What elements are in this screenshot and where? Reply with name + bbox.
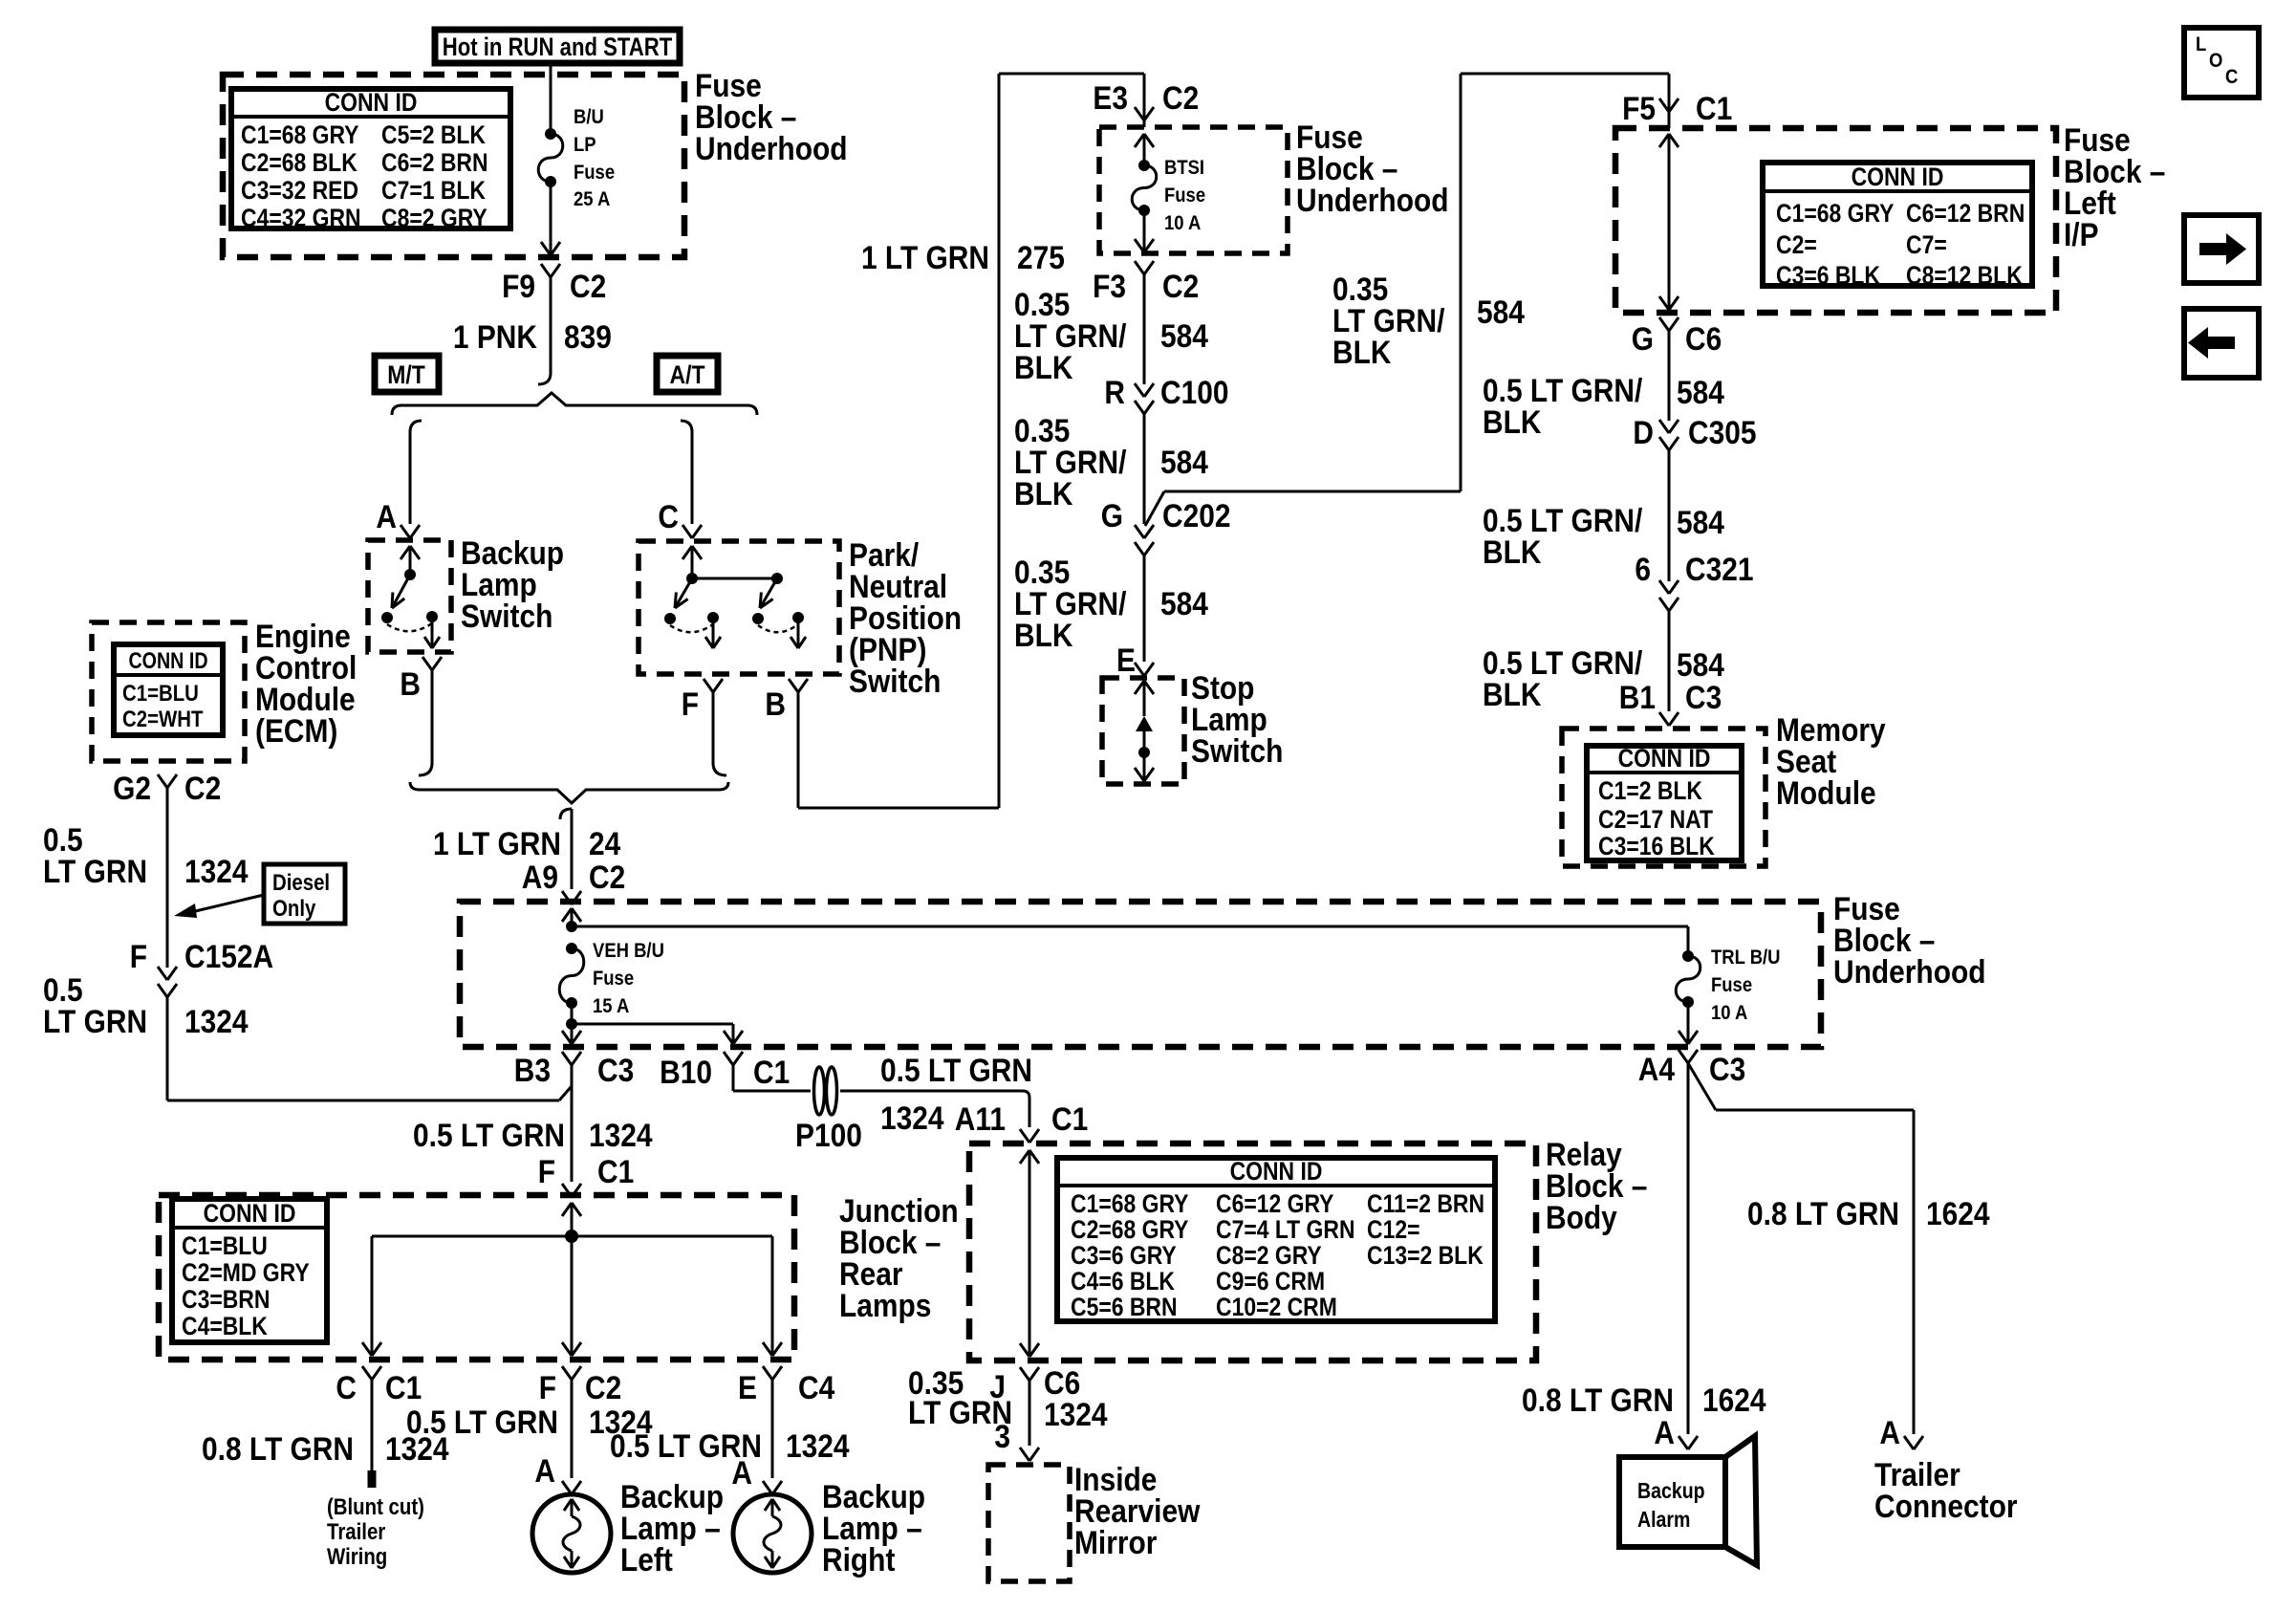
svg-text:C2: C2 bbox=[1162, 268, 1199, 304]
label: Backup Lamp - Left bbox=[620, 1478, 724, 1578]
svg-text:Body: Body bbox=[1546, 1199, 1617, 1235]
svg-text:Connector: Connector bbox=[1874, 1488, 2018, 1524]
svg-text:10 A: 10 A bbox=[1711, 1002, 1747, 1024]
svg-text:0.8 LT GRN: 0.8 LT GRN bbox=[1522, 1382, 1674, 1418]
svg-text:6: 6 bbox=[1635, 551, 1651, 587]
svg-text:1624: 1624 bbox=[1702, 1382, 1766, 1418]
label: Fuse Block - Underhood (center) bbox=[1833, 890, 1986, 990]
svg-text:C1: C1 bbox=[753, 1054, 790, 1090]
label: Relay Block - Body bbox=[1546, 1136, 1647, 1235]
svg-text:C4=32 GRN: C4=32 GRN bbox=[241, 204, 361, 232]
wire: 0.5 LT GRN/BLK 584 (C305 to C321) bbox=[1483, 449, 1724, 581]
svg-text:E3: E3 bbox=[1093, 79, 1128, 116]
svg-text:CONN ID: CONN ID bbox=[204, 1199, 296, 1228]
svg-text:Fuse: Fuse bbox=[1711, 974, 1752, 996]
svg-text:BLK: BLK bbox=[1483, 676, 1541, 712]
svg-text:1 LT GRN: 1 LT GRN bbox=[861, 239, 989, 275]
fuse B/U LP 25 A bbox=[538, 106, 615, 255]
svg-text:F5: F5 bbox=[1622, 90, 1656, 126]
svg-text:A4: A4 bbox=[1638, 1051, 1675, 1087]
branch brace for M/T and A/T split bbox=[392, 393, 757, 415]
connector J C6 bbox=[908, 1364, 1108, 1432]
connector R C100 bbox=[1104, 374, 1228, 414]
connector B (PNP pin B) bbox=[765, 679, 808, 722]
backup lamp - left bulb bbox=[532, 1494, 611, 1573]
svg-text:C305: C305 bbox=[1688, 414, 1757, 450]
connector B3 C3 bbox=[514, 1052, 634, 1088]
svg-text:C2=68 BLK: C2=68 BLK bbox=[241, 148, 357, 177]
svg-text:C: C bbox=[336, 1369, 357, 1405]
svg-text:C3: C3 bbox=[597, 1052, 634, 1088]
svg-text:G2: G2 bbox=[113, 770, 151, 806]
wire through relay block bbox=[1020, 1150, 1039, 1357]
svg-text:Underhood: Underhood bbox=[1296, 182, 1449, 218]
backup lamp switch dashed box bbox=[368, 540, 451, 652]
svg-text:839: 839 bbox=[564, 318, 612, 355]
svg-text:C2=WHT: C2=WHT bbox=[122, 706, 204, 731]
wire: branch to trailer connector (0.8 LT GRN 1624) bbox=[1688, 1063, 1990, 1434]
wire: A4 to backup alarm (0.8 LT GRN 1624) bbox=[1522, 1063, 1766, 1434]
svg-text:CONN ID: CONN ID bbox=[325, 88, 418, 117]
svg-text:B: B bbox=[765, 686, 786, 722]
svg-text:C9=6 CRM: C9=6 CRM bbox=[1216, 1267, 1325, 1295]
svg-text:(ECM): (ECM) bbox=[255, 712, 337, 749]
svg-text:B: B bbox=[400, 665, 421, 702]
label: Park/Neutral Position (PNP) Switch bbox=[849, 536, 962, 699]
fuse block - underhood (center) dashed box bbox=[460, 902, 1821, 1047]
PNP switch contacts bbox=[664, 546, 806, 648]
CONN ID table (fuse block left I/P) bbox=[1763, 163, 2032, 290]
label: Junction Block - Rear Lamps bbox=[839, 1192, 959, 1323]
svg-text:Switch: Switch bbox=[461, 598, 552, 634]
connector C C1 bbox=[336, 1366, 422, 1405]
svg-text:C7=: C7= bbox=[1906, 230, 1947, 259]
svg-text:C2: C2 bbox=[570, 268, 606, 304]
svg-text:LP: LP bbox=[574, 134, 596, 156]
svg-text:C7=1 BLK: C7=1 BLK bbox=[381, 176, 486, 205]
svg-text:1324: 1324 bbox=[589, 1117, 653, 1153]
fuse BTSI 10 A bbox=[1132, 134, 1205, 252]
wire: 0.35 LT GRN/BLK 584 (C100 to C202) bbox=[1014, 412, 1208, 524]
svg-text:C4=6 BLK: C4=6 BLK bbox=[1071, 1267, 1175, 1295]
wire: feed from Hot in RUN into fuse block bbox=[550, 63, 552, 134]
svg-text:C12=: C12= bbox=[1367, 1215, 1419, 1244]
backup alarm box bbox=[1619, 1457, 1725, 1547]
svg-text:1324: 1324 bbox=[786, 1427, 850, 1464]
svg-text:C6: C6 bbox=[1685, 320, 1722, 357]
wire: 1 LT GRN 24 to A9 bbox=[433, 809, 621, 889]
fuse VEH B/U 15 A bbox=[559, 940, 664, 1044]
svg-text:B3: B3 bbox=[514, 1052, 551, 1088]
svg-text:CONN ID: CONN ID bbox=[1852, 163, 1944, 191]
svg-text:C152A: C152A bbox=[184, 938, 273, 974]
wire: A/T branch down to PNP switch bbox=[681, 421, 692, 524]
svg-text:C4: C4 bbox=[798, 1369, 834, 1405]
connector G C202 bbox=[1101, 497, 1231, 555]
connector A9 C2 bbox=[522, 859, 625, 904]
connector G C6 bbox=[1632, 317, 1722, 357]
svg-text:M/T: M/T bbox=[387, 360, 425, 389]
memory seat module dashed box bbox=[1562, 729, 1765, 866]
svg-text:0.5 LT GRN: 0.5 LT GRN bbox=[406, 1404, 558, 1440]
connector E3 C2 bbox=[1093, 74, 1199, 127]
svg-text:R: R bbox=[1104, 374, 1125, 410]
svg-text:Alarm: Alarm bbox=[1637, 1508, 1690, 1533]
CONN ID table (relay block body) bbox=[1057, 1157, 1495, 1321]
M/T box bbox=[375, 356, 439, 392]
fuse TRL B/U 10 A bbox=[1676, 947, 1780, 1044]
svg-text:C2=17 NAT: C2=17 NAT bbox=[1598, 805, 1714, 834]
wire: 0.5 LT GRN 1324 to backup lamp right bbox=[610, 1379, 850, 1478]
connector A (backup alarm) bbox=[1654, 1414, 1698, 1450]
label: Backup Lamp Switch bbox=[461, 534, 564, 634]
svg-text:F: F bbox=[538, 1153, 555, 1189]
svg-text:A11: A11 bbox=[955, 1100, 1006, 1137]
svg-text:C10=2 CRM: C10=2 CRM bbox=[1216, 1293, 1337, 1321]
svg-text:10 A: 10 A bbox=[1164, 212, 1201, 234]
svg-text:C3=BRN: C3=BRN bbox=[182, 1285, 270, 1314]
wire: backup lamp switch B down to merge brace bbox=[419, 668, 432, 775]
svg-text:C4=BLK: C4=BLK bbox=[182, 1312, 268, 1340]
svg-text:Switch: Switch bbox=[1191, 732, 1283, 769]
svg-text:C8=2 GRY: C8=2 GRY bbox=[1216, 1241, 1322, 1270]
svg-text:15 A: 15 A bbox=[593, 995, 629, 1017]
svg-text:Underhood: Underhood bbox=[695, 130, 848, 166]
fuse block - underhood (top) dashed box bbox=[223, 75, 684, 257]
svg-text:C1=68 GRY: C1=68 GRY bbox=[1776, 199, 1895, 228]
CONN ID table (junction block) bbox=[172, 1199, 327, 1342]
svg-text:A: A bbox=[731, 1454, 752, 1491]
svg-text:E: E bbox=[1116, 642, 1136, 678]
svg-text:CONN ID: CONN ID bbox=[1618, 744, 1711, 773]
svg-text:C321: C321 bbox=[1685, 551, 1754, 587]
connector F C1 (junction block) bbox=[538, 1153, 635, 1197]
label: Fuse Block - Underhood (BTSI) bbox=[1296, 119, 1449, 218]
svg-text:C6=2 BRN: C6=2 BRN bbox=[381, 148, 488, 177]
svg-text:C11=2 BRN: C11=2 BRN bbox=[1367, 1189, 1484, 1218]
svg-text:C8=2 GRY: C8=2 GRY bbox=[381, 204, 487, 232]
svg-text:Wiring: Wiring bbox=[327, 1543, 387, 1569]
svg-text:C3=6 GRY: C3=6 GRY bbox=[1071, 1241, 1177, 1270]
svg-text:Trailer: Trailer bbox=[327, 1518, 386, 1544]
svg-text:C6=12 GRY: C6=12 GRY bbox=[1216, 1189, 1334, 1218]
svg-text:275: 275 bbox=[1017, 239, 1065, 275]
svg-text:0.5 LT GRN: 0.5 LT GRN bbox=[880, 1052, 1032, 1088]
svg-text:C3: C3 bbox=[1709, 1051, 1745, 1087]
connector F C152A bbox=[130, 938, 273, 997]
svg-text:584: 584 bbox=[1160, 444, 1208, 480]
svg-text:BLK: BLK bbox=[1014, 475, 1072, 512]
svg-text:C2: C2 bbox=[589, 859, 625, 895]
svg-text:C2: C2 bbox=[585, 1369, 621, 1405]
svg-text:Switch: Switch bbox=[849, 663, 941, 699]
inline connector P100 bbox=[795, 1067, 862, 1153]
connector F3 C2 bbox=[1093, 261, 1199, 304]
svg-text:Diesel: Diesel bbox=[272, 869, 330, 895]
backup alarm speaker horn bbox=[1725, 1436, 1757, 1565]
wire: 0.5 LT GRN 1324 (ECM to C152A) bbox=[43, 787, 249, 968]
svg-text:B1: B1 bbox=[1619, 679, 1656, 715]
connector F9 C2 bbox=[502, 264, 606, 304]
svg-text:BLK: BLK bbox=[1483, 403, 1541, 440]
connector C (PNP pin C) bbox=[658, 498, 702, 538]
connector A (trailer connector) bbox=[1879, 1414, 1923, 1450]
svg-text:LT GRN: LT GRN bbox=[43, 1003, 147, 1039]
svg-text:C202: C202 bbox=[1162, 497, 1231, 533]
wire: A9 entry and bus to TRL fuse bbox=[562, 908, 1688, 956]
svg-text:Right: Right bbox=[822, 1541, 896, 1578]
svg-text:584: 584 bbox=[1160, 317, 1208, 354]
svg-text:F: F bbox=[130, 938, 147, 974]
wire: 0.5 LT GRN/BLK 584 (C321 to B1) bbox=[1483, 610, 1724, 712]
svg-text:E: E bbox=[738, 1369, 757, 1405]
svg-text:584: 584 bbox=[1677, 504, 1724, 540]
svg-text:Underhood: Underhood bbox=[1833, 953, 1986, 990]
label: Fuse Block - Left I/P bbox=[2064, 121, 2165, 252]
svg-text:F: F bbox=[682, 686, 699, 722]
svg-text:BTSI: BTSI bbox=[1164, 157, 1204, 179]
label: Engine Control Module (ECM) bbox=[255, 618, 357, 749]
svg-text:P100: P100 bbox=[795, 1117, 862, 1153]
svg-text:584: 584 bbox=[1677, 374, 1724, 410]
svg-text:A: A bbox=[376, 498, 397, 534]
wire: M/T branch down to backup lamp switch bbox=[410, 421, 422, 524]
power feed label box: Hot in RUN and START bbox=[435, 30, 680, 63]
label: Memory Seat Module bbox=[1776, 711, 1886, 811]
svg-text:Backup: Backup bbox=[1637, 1479, 1705, 1504]
svg-text:584: 584 bbox=[1477, 294, 1525, 330]
wire: C202 branch to left I/P (0.35 LT GRN/BLK 584) bbox=[1145, 74, 1669, 526]
merge brace joining switch outputs bbox=[410, 782, 728, 803]
svg-text:C5=2 BLK: C5=2 BLK bbox=[381, 120, 486, 149]
svg-text:C1=68 GRY: C1=68 GRY bbox=[241, 120, 359, 149]
svg-text:C3: C3 bbox=[1685, 679, 1722, 715]
svg-text:L: L bbox=[2196, 33, 2206, 55]
svg-text:O: O bbox=[2209, 50, 2222, 72]
diesel only note box and arrow bbox=[174, 864, 345, 924]
svg-text:Hot in RUN and START: Hot in RUN and START bbox=[443, 33, 672, 62]
connector A (backup lamp switch pin A) bbox=[376, 498, 420, 538]
label: Trailer Connector bbox=[1874, 1456, 2018, 1524]
svg-text:BLK: BLK bbox=[1332, 334, 1391, 370]
arrow right reference box bbox=[2184, 215, 2259, 283]
svg-text:584: 584 bbox=[1677, 646, 1724, 683]
connector G2 C2 bbox=[113, 770, 221, 806]
svg-text:VEH B/U: VEH B/U bbox=[593, 940, 664, 962]
svg-text:Lamps: Lamps bbox=[839, 1287, 931, 1323]
svg-text:C2=MD GRY: C2=MD GRY bbox=[182, 1258, 310, 1287]
svg-text:C8=12 BLK: C8=12 BLK bbox=[1906, 261, 2023, 290]
svg-text:G: G bbox=[1632, 320, 1654, 357]
connector 6 C321 bbox=[1635, 551, 1753, 611]
svg-text:Module: Module bbox=[1776, 774, 1876, 811]
svg-text:C1=BLU: C1=BLU bbox=[122, 680, 199, 706]
wire: B10 to P100 and A11 (0.5 LT GRN 1324) bbox=[733, 1052, 1032, 1136]
wire: 0.5 LT GRN 1324 to backup lamp left bbox=[406, 1379, 653, 1478]
svg-text:J: J bbox=[989, 1368, 1006, 1404]
svg-text:24: 24 bbox=[589, 825, 620, 861]
svg-text:C100: C100 bbox=[1160, 374, 1229, 410]
stop lamp switch contacts bbox=[1135, 681, 1154, 781]
connector A11 C1 bbox=[955, 1100, 1088, 1143]
svg-text:BLK: BLK bbox=[1014, 617, 1072, 653]
svg-text:C3=32 RED: C3=32 RED bbox=[241, 176, 358, 205]
svg-text:25 A: 25 A bbox=[574, 188, 610, 210]
wire: PNP B up to BTSI feed (1 LT GRN 275) bbox=[798, 74, 1144, 808]
svg-text:C1=68 GRY: C1=68 GRY bbox=[1071, 1189, 1189, 1218]
connector A (backup lamp left) bbox=[534, 1452, 581, 1494]
relay block - body dashed box bbox=[969, 1143, 1536, 1361]
junction block - rear lamps dashed box bbox=[159, 1195, 794, 1360]
svg-text:Fuse: Fuse bbox=[1164, 185, 1205, 207]
svg-text:0.8 LT GRN: 0.8 LT GRN bbox=[1747, 1195, 1899, 1231]
connector E C4 (junction to right lamp) bbox=[738, 1366, 834, 1405]
wire through left I/P fuse block bbox=[1659, 134, 1679, 310]
svg-text:C1=2 BLK: C1=2 BLK bbox=[1598, 776, 1702, 805]
backup lamp switch contacts bbox=[381, 546, 440, 648]
CONN ID table (fuse block underhood top) bbox=[231, 88, 510, 232]
svg-text:BLK: BLK bbox=[1014, 349, 1072, 385]
svg-text:1 LT GRN: 1 LT GRN bbox=[433, 825, 561, 861]
svg-text:F9: F9 bbox=[502, 268, 535, 304]
CONN ID table (ECM) bbox=[114, 644, 223, 735]
label: Fuse Block - Underhood (top) bbox=[695, 67, 848, 166]
connector B1 C3 bbox=[1619, 679, 1722, 726]
svg-text:C2=: C2= bbox=[1776, 230, 1817, 259]
svg-text:(Blunt cut): (Blunt cut) bbox=[327, 1493, 424, 1519]
fuse block - underhood (BTSI) dashed box bbox=[1099, 127, 1288, 253]
svg-text:BLK: BLK bbox=[1483, 533, 1541, 570]
wire: 0.5 LT GRN 1324 (C152A down to B3 junction) bbox=[43, 971, 572, 1100]
svg-text:Only: Only bbox=[272, 895, 316, 921]
engine control module (ECM) dashed box bbox=[92, 622, 245, 761]
wire: 0.5 LT GRN/BLK 584 (G to C305) bbox=[1483, 330, 1724, 440]
svg-text:F: F bbox=[539, 1369, 556, 1405]
svg-text:A/T: A/T bbox=[670, 360, 706, 389]
connector 3 (inside rearview mirror) bbox=[1020, 1448, 1039, 1461]
svg-text:1324: 1324 bbox=[880, 1099, 944, 1136]
svg-text:C1: C1 bbox=[385, 1369, 422, 1405]
svg-text:TRL B/U: TRL B/U bbox=[1711, 947, 1781, 969]
label: Stop Lamp Switch bbox=[1191, 669, 1283, 769]
stop lamp switch dashed box bbox=[1102, 678, 1184, 784]
connector B (backup lamp switch pin B) bbox=[400, 657, 442, 702]
wire: 0.5 LT GRN 1324 (B3 to junction block) bbox=[413, 1063, 653, 1182]
svg-text:C2=68 GRY: C2=68 GRY bbox=[1071, 1215, 1189, 1244]
svg-text:C3=16 BLK: C3=16 BLK bbox=[1598, 832, 1715, 860]
connector E (stop lamp switch) bbox=[1116, 642, 1154, 678]
svg-text:Fuse: Fuse bbox=[574, 162, 615, 184]
svg-text:C: C bbox=[658, 498, 679, 534]
label: Backup Lamp - Right bbox=[822, 1478, 925, 1578]
connector F (PNP pin F) bbox=[682, 679, 723, 722]
wire: 0.35 LT GRN 3 to inside rearview mirror bbox=[994, 1380, 1029, 1454]
svg-text:F3: F3 bbox=[1093, 268, 1126, 304]
park/neutral position switch dashed box bbox=[639, 541, 839, 674]
svg-text:1324: 1324 bbox=[184, 853, 249, 889]
wire: VEH fuse branch to B10 bbox=[572, 1024, 743, 1044]
svg-text:CONN ID: CONN ID bbox=[1230, 1157, 1323, 1186]
inside rearview mirror dashed box bbox=[988, 1465, 1070, 1581]
svg-text:0.8 LT GRN: 0.8 LT GRN bbox=[202, 1430, 354, 1467]
svg-text:0.5 LT GRN: 0.5 LT GRN bbox=[413, 1117, 565, 1153]
svg-text:1324: 1324 bbox=[1044, 1396, 1108, 1432]
svg-text:C6=12 BRN: C6=12 BRN bbox=[1906, 199, 2025, 228]
svg-text:C1=BLU: C1=BLU bbox=[182, 1231, 268, 1260]
svg-text:B10: B10 bbox=[660, 1054, 712, 1090]
svg-text:LT GRN: LT GRN bbox=[43, 853, 147, 889]
wire: PNP F down to merge brace bbox=[713, 690, 726, 775]
svg-text:A: A bbox=[1654, 1414, 1675, 1450]
svg-text:Left: Left bbox=[620, 1541, 673, 1578]
svg-text:B/U: B/U bbox=[574, 106, 604, 128]
label: Inside Rearview Mirror bbox=[1074, 1461, 1200, 1560]
svg-text:Fuse: Fuse bbox=[593, 968, 634, 990]
svg-text:Mirror: Mirror bbox=[1074, 1524, 1157, 1560]
svg-text:C5=6 BRN: C5=6 BRN bbox=[1071, 1293, 1178, 1321]
connector F5 C1 bbox=[1622, 90, 1732, 128]
svg-text:C7=4 LT GRN: C7=4 LT GRN bbox=[1216, 1215, 1355, 1244]
svg-text:C: C bbox=[2225, 66, 2238, 88]
connector F C2 (junction to left lamp) bbox=[539, 1366, 622, 1405]
svg-text:CONN ID: CONN ID bbox=[128, 647, 207, 673]
svg-text:C13=2 BLK: C13=2 BLK bbox=[1367, 1241, 1484, 1270]
svg-text:1 PNK: 1 PNK bbox=[453, 318, 537, 355]
wire: 1 PNK 839 bbox=[453, 276, 612, 384]
svg-text:A: A bbox=[534, 1452, 555, 1489]
LOC reference box bbox=[2184, 28, 2259, 98]
svg-text:584: 584 bbox=[1160, 585, 1208, 621]
svg-text:C1: C1 bbox=[1696, 90, 1732, 126]
svg-text:G: G bbox=[1101, 497, 1123, 533]
svg-text:C2: C2 bbox=[184, 770, 221, 806]
svg-text:A: A bbox=[1879, 1414, 1900, 1450]
svg-text:I/P: I/P bbox=[2064, 216, 2099, 252]
svg-text:D: D bbox=[1633, 414, 1654, 450]
svg-text:1624: 1624 bbox=[1926, 1195, 1990, 1231]
arrow left reference box bbox=[2184, 309, 2259, 378]
connector A (backup lamp right) bbox=[731, 1454, 782, 1494]
connector B10 C1 bbox=[660, 1052, 790, 1090]
CONN ID table (memory seat module) bbox=[1587, 744, 1742, 860]
backup lamp - right bulb bbox=[733, 1494, 812, 1573]
svg-text:C2: C2 bbox=[1162, 79, 1199, 116]
wire: 0.35 LT GRN/BLK 584 (F3 to C100) bbox=[1014, 273, 1208, 385]
svg-text:1324: 1324 bbox=[184, 1003, 249, 1039]
svg-text:C1: C1 bbox=[597, 1153, 634, 1189]
svg-text:3: 3 bbox=[994, 1418, 1010, 1454]
svg-text:A9: A9 bbox=[522, 859, 558, 895]
svg-text:C1: C1 bbox=[1051, 1100, 1088, 1137]
A/T box bbox=[657, 356, 718, 392]
fuse block - left I/P dashed box bbox=[1615, 128, 2056, 313]
connector A4 C3 bbox=[1638, 1050, 1745, 1087]
junction block internal bus bbox=[362, 1203, 782, 1356]
connector D C305 bbox=[1633, 414, 1756, 450]
wire: 0.8 LT GRN 1324 blunt cut trailer wiring bbox=[202, 1379, 449, 1569]
wire: 0.35 LT GRN/BLK 584 (C202 to stop lamp switch) bbox=[1014, 554, 1208, 662]
svg-text:C3=6 BLK: C3=6 BLK bbox=[1776, 261, 1880, 290]
